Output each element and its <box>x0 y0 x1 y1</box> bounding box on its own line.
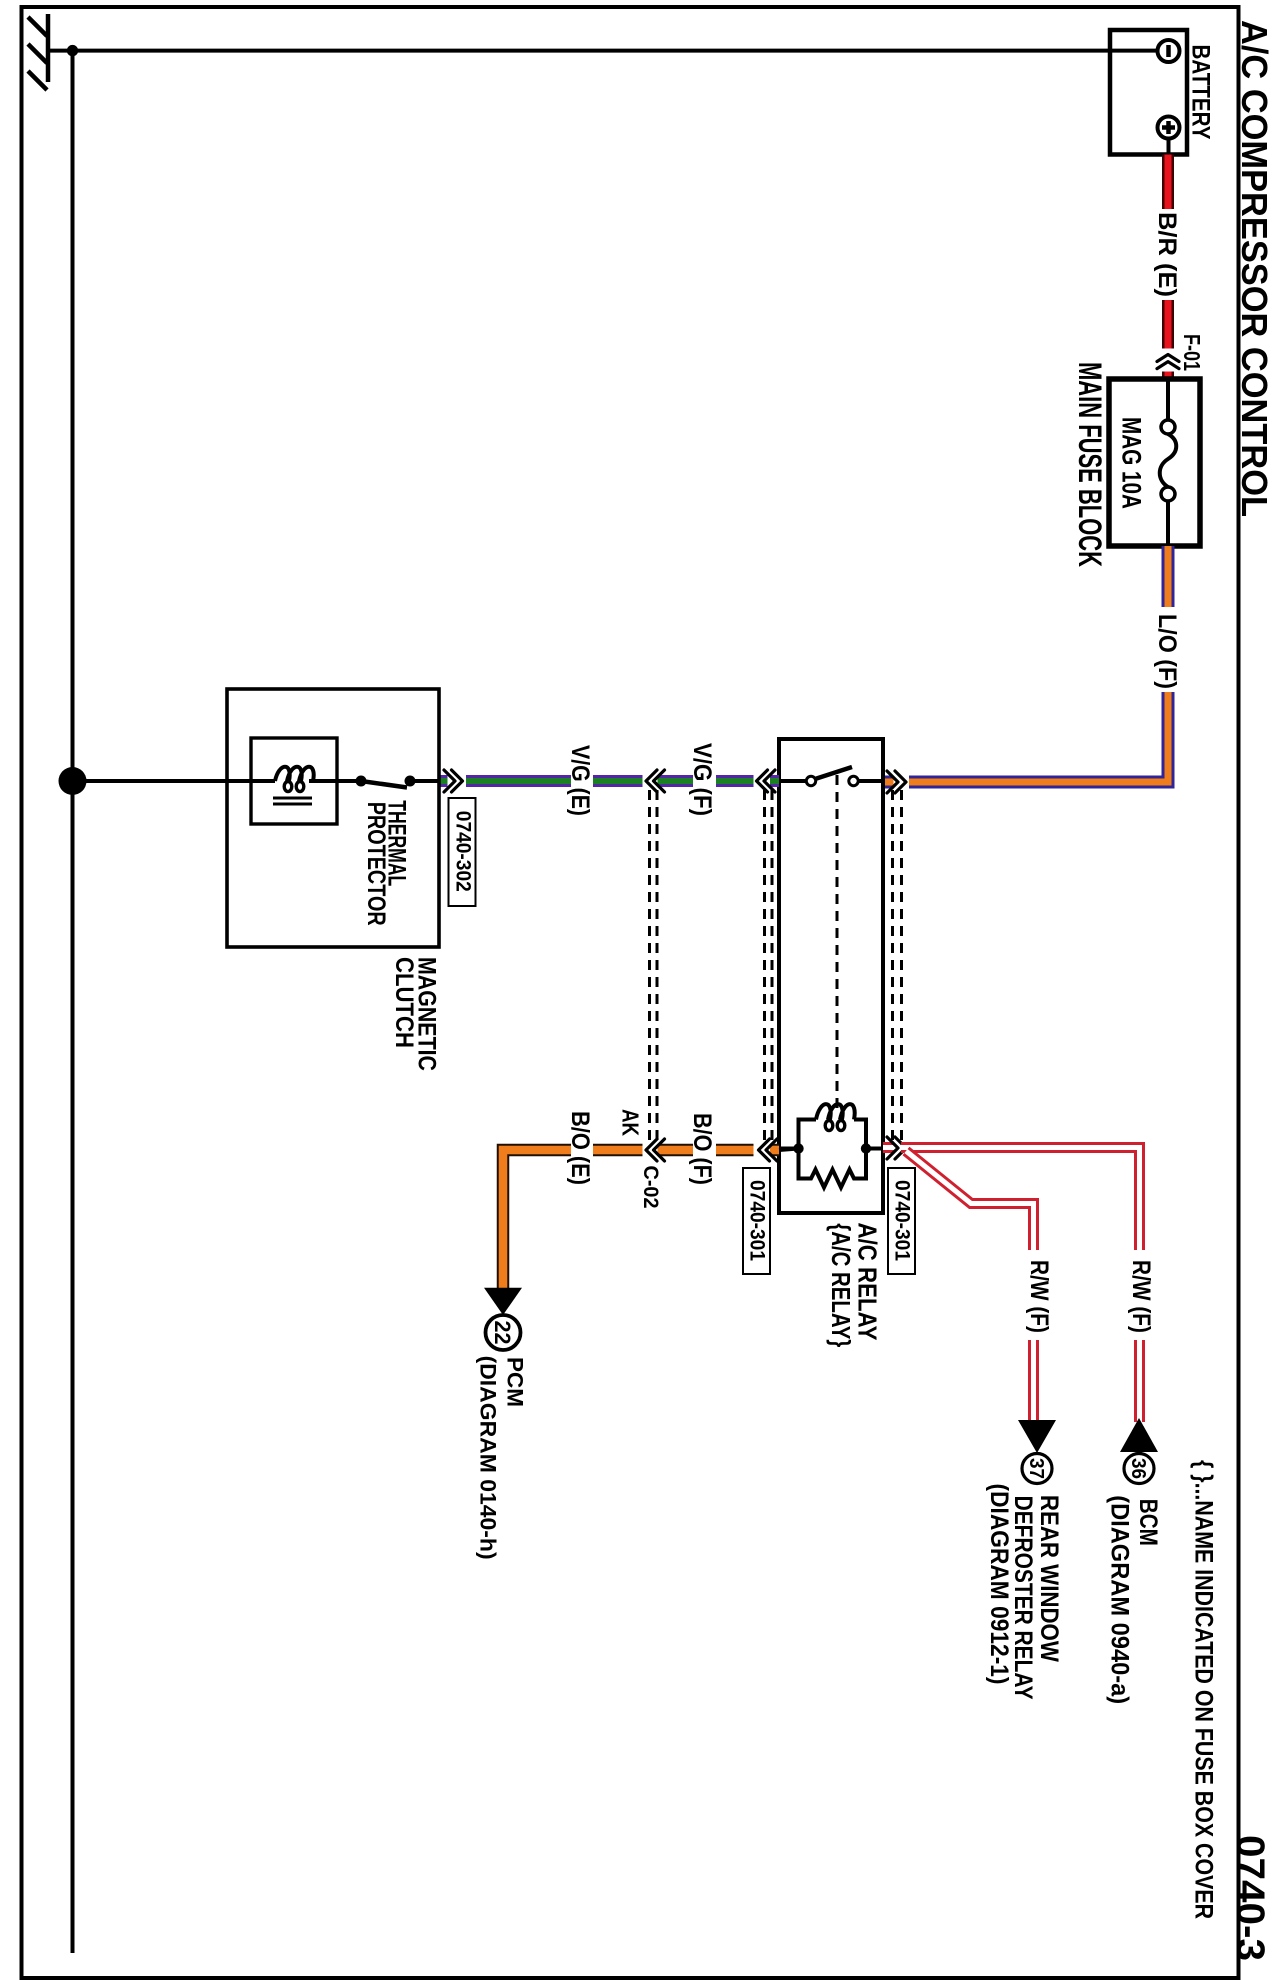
svg-text:R/W (F): R/W (F) <box>1025 1260 1053 1333</box>
svg-text:V/G (E): V/G (E) <box>566 745 594 816</box>
svg-text:L/O (F): L/O (F) <box>1153 614 1181 689</box>
label THERMAL PROTECTOR <box>362 800 410 925</box>
wire clutch to ground bus <box>73 779 252 783</box>
svg-text:CLUTCH: CLUTCH <box>390 957 418 1048</box>
relay coil and resistor loop <box>779 1104 883 1187</box>
svg-text:36: 36 <box>1127 1458 1149 1479</box>
svg-text:(DIAGRAM 0912-1): (DIAGRAM 0912-1) <box>985 1484 1013 1685</box>
label box 0740-301 bottom <box>743 1168 770 1274</box>
wire R/W stub at relay <box>883 1142 894 1153</box>
wire R/W to BCM <box>901 1148 1140 1423</box>
connector chevrons R/W at relay <box>887 1137 906 1159</box>
svg-text:A/C RELAY: A/C RELAY <box>853 1223 883 1341</box>
relay switch <box>779 767 883 786</box>
battery plus terminal <box>1158 117 1180 139</box>
connector chevrons 0740-302 at clutch <box>444 770 463 792</box>
connector chevrons V/G at relay <box>757 770 776 792</box>
connector C-02 chevrons on V/G <box>646 770 665 792</box>
main fuse block box <box>1072 362 1200 567</box>
arrow to defroster relay <box>1018 1420 1056 1453</box>
ground bus wire <box>71 51 75 1953</box>
arrow to PCM <box>484 1288 522 1315</box>
svg-text:MAG 10A: MAG 10A <box>1117 417 1147 509</box>
junction dot ground bus left <box>67 45 78 56</box>
label MAGNETIC CLUTCH <box>390 957 441 1071</box>
svg-text:(DIAGRAM 0940-a): (DIAGRAM 0940-a) <box>1106 1495 1134 1704</box>
clutch switch <box>337 776 439 788</box>
label A/C RELAY <box>826 1223 883 1348</box>
svg-text:BATTERY: BATTERY <box>1186 45 1214 140</box>
wire V/G <box>439 775 779 787</box>
arrow to BCM <box>1120 1418 1158 1452</box>
connector F-01 chevrons <box>1157 355 1179 369</box>
thermal protector box <box>251 738 337 824</box>
svg-text:C-02: C-02 <box>639 1166 662 1209</box>
svg-text:V/G (F): V/G (F) <box>688 743 716 816</box>
svg-text:B/O (F): B/O (F) <box>688 1113 716 1185</box>
wire B/O <box>503 1150 779 1288</box>
wire L/O (F) <box>884 546 1169 782</box>
svg-text:B/O (E): B/O (E) <box>566 1111 594 1185</box>
ground symbol <box>28 14 48 90</box>
wire R/W to defroster relay <box>906 1151 1034 1422</box>
label box 0740-301 top <box>888 1168 915 1274</box>
svg-text:PCM: PCM <box>502 1357 527 1407</box>
svg-text:0740-3: 0740-3 <box>1228 1835 1272 1961</box>
svg-text:{ }...NAME INDICATED ON FUSE B: { }...NAME INDICATED ON FUSE BOX COVER <box>1190 1460 1218 1919</box>
svg-text:PROTECTOR: PROTECTOR <box>362 802 390 926</box>
junction dot clutch ground <box>59 767 87 795</box>
svg-text:MAIN FUSE BLOCK: MAIN FUSE BLOCK <box>1072 362 1108 567</box>
clutch coil (thermal protector element) <box>251 767 337 804</box>
svg-text:REAR WINDOW: REAR WINDOW <box>1035 1495 1063 1662</box>
relay dashed link switch to coil <box>836 775 839 1110</box>
battery <box>1110 30 1214 155</box>
svg-text:R/W (F): R/W (F) <box>1127 1260 1155 1333</box>
fuse MAG 10A <box>1117 379 1177 546</box>
label box 0740-302 <box>449 798 476 906</box>
svg-text:BCM: BCM <box>1134 1499 1162 1546</box>
circle 36 <box>1124 1454 1154 1484</box>
dashed connector pair 0740-301 bottom <box>765 790 773 1140</box>
svg-text:F-01: F-01 <box>1179 334 1205 371</box>
wire B/R (E) <box>1162 155 1174 380</box>
battery minus terminal <box>1158 40 1180 62</box>
svg-text:0740-301: 0740-301 <box>890 1180 914 1261</box>
wire B/O inside relay <box>779 1149 799 1151</box>
a/c relay box <box>779 739 883 1213</box>
wire stub battery plus <box>1167 139 1171 156</box>
connector chevrons B/O at relay <box>759 1139 778 1161</box>
dashed connector pair 0740-301 top <box>893 790 902 1140</box>
label REAR WINDOW DEFROSTER RELAY <box>985 1484 1063 1700</box>
wire battery minus to ground <box>50 49 1157 53</box>
connector chevrons L/O at relay <box>887 771 906 793</box>
svg-text:0740-301: 0740-301 <box>745 1180 769 1261</box>
circle 22 <box>486 1315 521 1350</box>
label BCM <box>1106 1495 1163 1704</box>
svg-text:{A/C RELAY}: {A/C RELAY} <box>826 1223 856 1347</box>
svg-text:0740-302: 0740-302 <box>451 811 475 892</box>
connector C-02 chevrons on B/O <box>646 1139 665 1161</box>
magnetic clutch box <box>227 689 439 947</box>
svg-text:22: 22 <box>490 1321 515 1345</box>
circle 37 <box>1022 1454 1052 1484</box>
svg-text:AK: AK <box>618 1109 644 1136</box>
svg-text:B/R (E): B/R (E) <box>1153 212 1181 297</box>
svg-text:37: 37 <box>1025 1458 1047 1479</box>
dashed connector pair C-02 <box>650 790 658 1140</box>
label PCM <box>476 1356 528 1560</box>
svg-text:(DIAGRAM 0140-h): (DIAGRAM 0140-h) <box>476 1356 501 1560</box>
